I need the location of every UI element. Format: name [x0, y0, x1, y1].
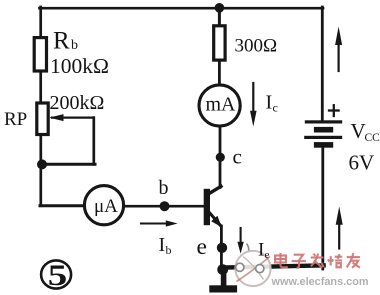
watermark logo red swoosh [237, 257, 271, 282]
watermark logo eye left [236, 263, 244, 271]
ground [221, 269, 227, 287]
watermark chinese char you [347, 253, 360, 268]
svg-text:I: I [258, 240, 264, 261]
label Rb [53, 28, 78, 55]
watermark logo eye right [256, 265, 264, 273]
svg-text:300Ω: 300Ω [235, 35, 278, 56]
wire right vertical (rail to battery) [321, 7, 324, 121]
wire rail to 300 ohm resistor [218, 8, 221, 27]
svg-text:100kΩ: 100kΩ [50, 54, 109, 78]
svg-text:6V: 6V [349, 151, 375, 175]
label Ic [266, 92, 278, 115]
svg-text:μA: μA [94, 196, 118, 217]
watermark chinese char shao [328, 254, 342, 267]
svg-text:www.elecfans.com: www.elecfans.com [271, 276, 369, 288]
potentiometer RP body [37, 103, 48, 135]
resistor Rb [34, 38, 46, 71]
svg-text:mA: mA [206, 94, 237, 116]
svg-text:I: I [266, 92, 273, 114]
wire emitter down [220, 226, 223, 270]
microammeter uA [84, 186, 123, 225]
watermark logo inner curve [243, 257, 264, 280]
battery Vcc plates [305, 120, 342, 123]
junction dot emitter-bottom [217, 264, 228, 275]
svg-text:b: b [166, 243, 172, 257]
arrow Ic [252, 83, 254, 112]
svg-text:e: e [197, 234, 207, 260]
wire wiper vertical [92, 118, 95, 165]
wire battery to bottom rail [321, 148, 324, 270]
svg-text:200kΩ: 200kΩ [50, 92, 105, 114]
watermark logo stem [247, 244, 249, 253]
arrow Ie [237, 228, 243, 254]
svg-text:RP: RP [4, 109, 27, 130]
figure number 5 circle [41, 260, 71, 288]
svg-text:I: I [159, 234, 166, 256]
label Ib [159, 234, 172, 257]
wire left vertical (top rail to Rb) [39, 7, 42, 39]
transistor Q1 base bar [204, 189, 210, 225]
junction dot top rail [215, 3, 225, 13]
arrow Ib [141, 222, 168, 224]
svg-text:e: e [265, 249, 270, 261]
wire bottom rail [221, 265, 324, 267]
milliammeter mA [199, 85, 240, 126]
svg-text:V: V [351, 119, 366, 143]
wire top rail [40, 7, 324, 10]
svg-text:R: R [53, 28, 70, 55]
label Ie [258, 240, 270, 262]
RP wiper arrow [52, 116, 94, 118]
svg-text:b: b [71, 38, 78, 53]
arrow current up top [338, 44, 340, 71]
wire RP down [39, 135, 42, 206]
svg-text:c: c [233, 145, 242, 169]
transistor emitter lead with arrow [209, 212, 221, 226]
watermark logo circle [235, 251, 270, 286]
label Vcc [351, 119, 380, 144]
wire resistor to mA [218, 60, 221, 85]
arrow current up bottom [338, 224, 340, 249]
wire mA to collector, node c [219, 127, 222, 188]
watermark chinese char dian [275, 253, 288, 267]
svg-text:b: b [159, 177, 169, 199]
resistor 300 ohm [214, 26, 225, 60]
wire Rb to RP [39, 71, 42, 104]
wire uA to base [125, 205, 205, 208]
junction dot A [37, 159, 47, 169]
svg-text:c: c [273, 101, 278, 115]
watermark chinese char fa [311, 254, 324, 268]
wire to microammeter [40, 204, 84, 207]
watermark chinese char zi [292, 255, 306, 268]
node e dot [217, 243, 227, 253]
svg-text:5: 5 [48, 259, 68, 292]
transistor collector lead [208, 186, 222, 194]
wire wiper return horizontal [42, 163, 95, 166]
node c dot [216, 153, 225, 162]
svg-text:CC: CC [365, 132, 380, 144]
battery plus sign [329, 109, 339, 111]
node b [160, 201, 170, 211]
